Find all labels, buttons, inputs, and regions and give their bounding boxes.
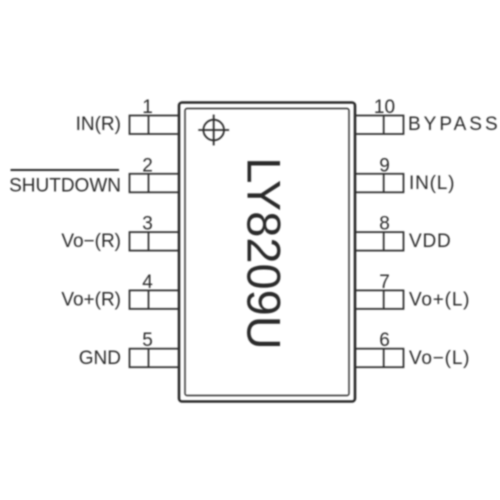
svg-text:LY8209U: LY8209U xyxy=(238,157,291,350)
svg-text:10: 10 xyxy=(374,97,395,118)
pin 9 lead xyxy=(355,174,404,193)
pin 10 lead xyxy=(355,116,404,135)
pin 2 lead xyxy=(130,174,180,193)
pin 2 name overline (active-low bar) xyxy=(11,169,120,171)
svg-text:Vo+(L): Vo+(L) xyxy=(409,290,470,311)
svg-text:Vo−(R): Vo−(R) xyxy=(61,231,121,252)
pin 1 indicator mark (crosshair circle) xyxy=(198,115,229,146)
pin 5 lead xyxy=(130,349,180,368)
pin 7 lead xyxy=(355,290,404,309)
svg-text:SHUTDOWN: SHUTDOWN xyxy=(9,176,121,197)
svg-text:9: 9 xyxy=(379,155,390,176)
svg-text:5: 5 xyxy=(142,330,153,351)
svg-text:6: 6 xyxy=(379,330,390,351)
svg-text:GND: GND xyxy=(79,348,121,369)
svg-text:3: 3 xyxy=(142,214,153,235)
svg-text:BYPASS: BYPASS xyxy=(408,114,500,135)
IC package inner body outline xyxy=(185,109,349,396)
pin 8 lead xyxy=(355,232,404,251)
svg-text:IN(R): IN(R) xyxy=(76,114,121,135)
pin 1 lead xyxy=(130,116,180,135)
svg-text:Vo−(L): Vo−(L) xyxy=(409,348,470,369)
svg-text:7: 7 xyxy=(379,272,390,293)
svg-text:1: 1 xyxy=(142,97,153,118)
svg-text:VDD: VDD xyxy=(409,231,452,252)
svg-text:2: 2 xyxy=(142,155,153,176)
svg-text:IN(L): IN(L) xyxy=(409,173,455,194)
svg-text:4: 4 xyxy=(142,272,153,293)
pin 3 lead xyxy=(130,232,180,251)
svg-text:Vo+(R): Vo+(R) xyxy=(61,290,121,311)
pin 6 lead xyxy=(355,349,404,368)
pin 4 lead xyxy=(130,290,180,309)
svg-text:8: 8 xyxy=(379,214,390,235)
IC package U1 LY8209U outer body outline xyxy=(179,103,355,402)
